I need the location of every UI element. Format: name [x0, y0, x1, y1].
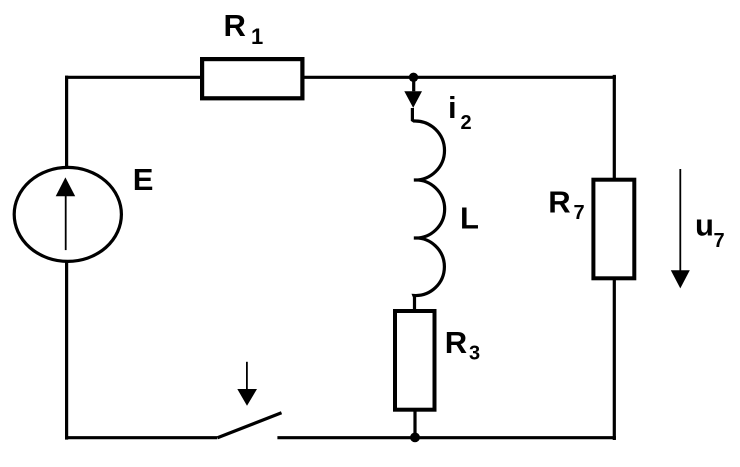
- svg-text:7: 7: [714, 230, 725, 252]
- svg-text:R: R: [445, 325, 467, 360]
- svg-text:L: L: [460, 201, 479, 236]
- svg-text:7: 7: [574, 202, 585, 224]
- svg-text:u: u: [695, 208, 714, 243]
- svg-text:2: 2: [461, 112, 472, 134]
- svg-text:E: E: [133, 162, 154, 197]
- svg-text:3: 3: [469, 343, 480, 365]
- svg-text:R: R: [548, 184, 570, 219]
- svg-text:1: 1: [251, 24, 263, 49]
- svg-text:i: i: [448, 90, 457, 125]
- svg-text:R: R: [224, 8, 246, 43]
